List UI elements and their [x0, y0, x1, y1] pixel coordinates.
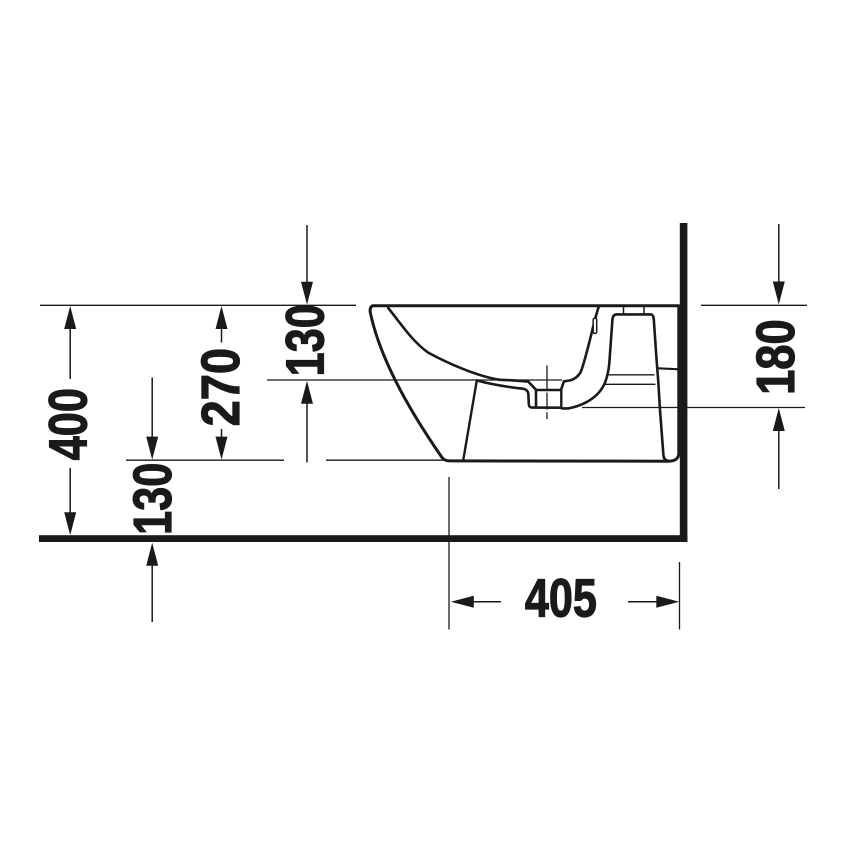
svg-text:130: 130	[276, 304, 336, 376]
svg-text:400: 400	[39, 388, 99, 460]
svg-text:405: 405	[525, 569, 597, 629]
svg-text:180: 180	[745, 319, 806, 395]
svg-text:270: 270	[190, 348, 251, 426]
svg-text:130: 130	[124, 463, 184, 535]
